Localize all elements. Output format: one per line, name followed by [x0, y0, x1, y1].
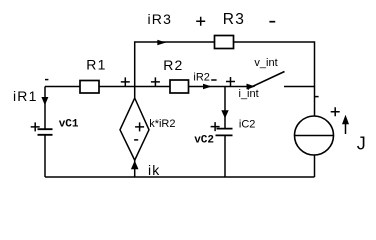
svg-text:i_int: i_int	[239, 88, 259, 100]
svg-text:k*iR2: k*iR2	[149, 118, 175, 130]
svg-text:R3: R3	[223, 11, 245, 28]
svg-text:R1: R1	[86, 57, 106, 73]
svg-text:iC2: iC2	[239, 119, 256, 131]
svg-text:ik: ik	[148, 162, 161, 178]
svg-text:R2: R2	[163, 57, 183, 73]
svg-text:v_int: v_int	[254, 57, 277, 69]
svg-text:vC2: vC2	[194, 135, 214, 147]
svg-text:iR2: iR2	[193, 72, 210, 84]
svg-text:iR1: iR1	[13, 88, 38, 104]
svg-text:iR3: iR3	[148, 11, 173, 27]
svg-text:J: J	[357, 134, 366, 154]
svg-text:vC1: vC1	[59, 119, 79, 131]
